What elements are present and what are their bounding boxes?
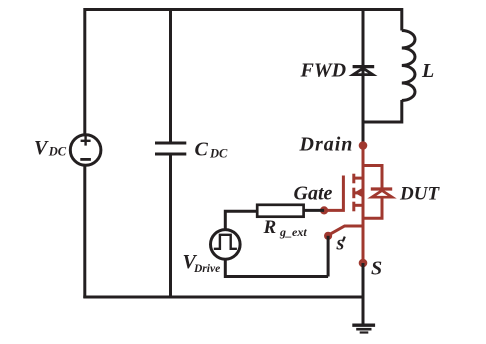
svg-text:FWD: FWD (300, 60, 347, 82)
transistor DUT mosfet gate bar (324, 176, 343, 211)
wire mosfet drain lead (354, 177, 363, 180)
svg-text:g_ext: g_ext (279, 225, 307, 239)
svg-text:C: C (195, 139, 209, 161)
wire kelvin source branch (329, 226, 363, 235)
wire left vertical below VDC (83, 167, 86, 299)
diode FWD (353, 65, 375, 68)
ground (352, 324, 375, 327)
transistor channel segment drain (352, 174, 355, 184)
wire bottom bus (83, 296, 363, 299)
svg-text:V: V (34, 137, 49, 159)
wire inductor bottom (363, 100, 402, 122)
wire CDC bottom (169, 154, 172, 297)
svg-text:Drive: Drive (193, 263, 220, 275)
capacitor CDC (155, 142, 186, 145)
wire body-diode branch top (363, 166, 382, 189)
wire source to ground (362, 263, 365, 325)
svg-text:S: S (371, 258, 382, 280)
wire resistor to gate node (304, 209, 325, 212)
wire s' down (327, 236, 330, 277)
resistor Rg_ext (257, 205, 303, 217)
wire top bus (85, 10, 402, 134)
svg-text:DC: DC (209, 147, 228, 161)
node Gate (320, 206, 328, 214)
wire CDC top (169, 8, 172, 142)
diode DUT body (371, 187, 392, 190)
wire vdrive bottom (225, 260, 328, 277)
source VDrive (211, 230, 241, 260)
wire mosfet body lead arrow (354, 191, 363, 194)
wire FWD branch vertical (362, 8, 365, 146)
inductor L (402, 31, 415, 101)
wire drain-source red vertical (362, 146, 365, 264)
svg-text:Gate: Gate (294, 182, 333, 204)
transistor channel segment source (352, 202, 355, 212)
svg-text:R: R (263, 217, 277, 238)
voltage source VDC (70, 135, 101, 166)
svg-text:DUT: DUT (399, 184, 440, 205)
wire body-diode branch bottom (363, 197, 382, 218)
svg-text:Drain: Drain (299, 134, 354, 156)
svg-text:L: L (421, 60, 434, 82)
transistor channel segment body (352, 188, 355, 199)
node s' (324, 232, 332, 240)
wire vdrive top (225, 211, 257, 229)
svg-text:s: s (336, 232, 345, 254)
svg-text:DC: DC (48, 145, 67, 159)
node Drain (359, 141, 368, 150)
wire mosfet source lead (354, 204, 363, 207)
node S (359, 259, 368, 268)
